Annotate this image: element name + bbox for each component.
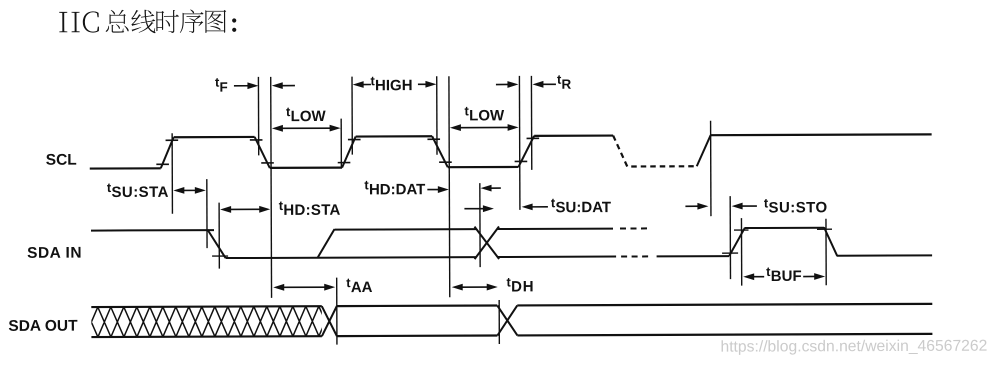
SCL rising edge 2 [342,137,356,168]
guide line S4: SDA data change (tHD:DAT right) [479,183,481,267]
SDA IN mid rising edge [317,229,334,258]
svg-text:DH: DH [511,278,534,295]
guide line V2: SDA OUT X2 (tDH right) [498,300,500,344]
tR arrow pointing left at G8 [541,83,555,85]
tSU:STA dimension arrow [182,189,196,191]
SDA IN high segment 2 [334,228,475,231]
tSU:DAT arrow pointing left at G7 [531,206,548,208]
tSU:STO arrow pointing left at G10 [741,205,757,207]
SCL falling edge 2 [432,136,448,167]
tSU:DAT arrow pointing right at X [464,208,484,210]
svg-text:HIGH: HIGH [375,77,413,94]
SDA IN high segment 1 [91,229,214,231]
svg-text:LOW: LOW [291,108,327,125]
guide line V1: SDA OUT X1 (tAA right) [336,278,338,345]
svg-text:BUF: BUF [771,268,802,285]
tLOW2 dimension arrow [459,126,510,128]
SDA IN low segment [226,256,476,259]
SDA OUT band top line [91,304,932,307]
svg-text:HD:STA: HD:STA [283,202,340,219]
rise corner tick low [722,252,738,254]
SDA IN high pulse top [745,227,824,229]
SDA IN falling edge (after stop) [824,227,837,256]
SDA IN falling edge 1 [207,230,225,259]
tF arrow pointing right at G1 [234,85,249,87]
guide line G1: SCL fall1 start (tF left) [257,77,259,155]
SDA IN low segment 2 with dashed middle [498,256,616,258]
guide line G9: SCL rise4 (tSU:STO left) [710,121,712,216]
guide line S1: SCL rise1 (tSU:STA left) [171,133,173,213]
guide line G4: SCL rise2 end (tHIGH left) [351,77,353,155]
SDA OUT transition X1 [322,306,337,336]
SDA IN final low segment [837,254,932,256]
guide line S2: SDA fall1 start (tSU:STA right) [206,179,208,248]
svg-text:F: F [220,80,228,95]
guide line G2: SCL fall1 end (tF right / tLOW1 left / tHD:STA right / tAA left) [270,77,273,298]
svg-text:SU:DAT: SU:DAT [555,199,611,216]
guide line G12: SDA fall / tBUF right [825,219,827,285]
SDA OUT transition X2 [497,305,517,335]
guide line G7: SCL rise3 start (tLOW2 right / tR left / tSU:DAT right) [518,76,521,210]
tHD:DAT arrow pointing left at S4 [490,187,501,189]
SDA IN crossover X [474,227,499,260]
guide line G5: SCL fall2 start (tHIGH right) [436,76,438,154]
SCL rising edge 3 [518,136,534,167]
SCL rising edge 4 [697,135,711,166]
SCL dashed falling edge and dashed low segment [613,135,697,166]
SDA IN fall1 corner tick [212,255,228,257]
tF arrow pointing left at G2 [281,85,295,87]
svg-text:SU:STA: SU:STA [111,184,168,201]
tR arrow pointing right at G7 [496,83,509,85]
tHD:STA dimension arrow [229,208,261,210]
tHD:DAT arrow pointing right at G6 [427,189,439,191]
svg-text:LOW: LOW [469,107,505,124]
svg-text:HD:DAT: HD:DAT [369,181,425,198]
fall corner tick high [817,228,832,230]
SCL waveform solid horizontals [90,134,932,168]
guide line G3: SCL rise2 start (tLOW1 right) [340,119,342,168]
svg-text:https://blog.csdn.net/weixin_4: https://blog.csdn.net/weixin_46567262 [720,338,987,356]
tLOW1 dimension arrow [281,127,332,129]
tBUF right arrow [803,275,816,277]
guide line G11: tBUF left [740,218,742,285]
guide line S3: SDA fall1 (tHD:STA left) [218,203,220,269]
svg-text:SDA OUT: SDA OUT [8,318,78,335]
svg-text:R: R [562,77,572,92]
svg-text:SDA IN: SDA IN [27,245,82,262]
tDH dimension arrow [461,286,489,288]
tHIGH left arrow [362,83,371,85]
guide line G10: SDA rise (tSU:STO right) [729,196,731,279]
svg-text:AA: AA [351,279,373,296]
SDA OUT band bottom line [91,334,932,337]
rise corner tick high [734,229,748,231]
tSU:STO arrow pointing right at G9 [685,205,699,207]
tAA dimension arrow [282,286,326,288]
tHIGH right arrow [418,83,427,85]
SDA OUT cross-hatch (invalid data) [85,306,332,337]
SDA IN high segment 3 with dashed end [497,228,612,230]
guide line G8: SCL rise3 end (tR right) [530,76,532,170]
SDA IN rising edge (stop pulse) [729,228,745,257]
SCL falling edge 1 [255,137,270,168]
title: IIC bus timing diagram heading [59,9,236,33]
svg-text:SCL: SCL [46,152,77,169]
SCL rising edge 1 [161,137,174,168]
tBUF left arrow [752,276,764,278]
svg-text:SU:STO: SU:STO [768,199,827,216]
guide line G6: SCL fall2 end (tLOW2 left / tHD:DAT / tDH left) [448,76,451,297]
